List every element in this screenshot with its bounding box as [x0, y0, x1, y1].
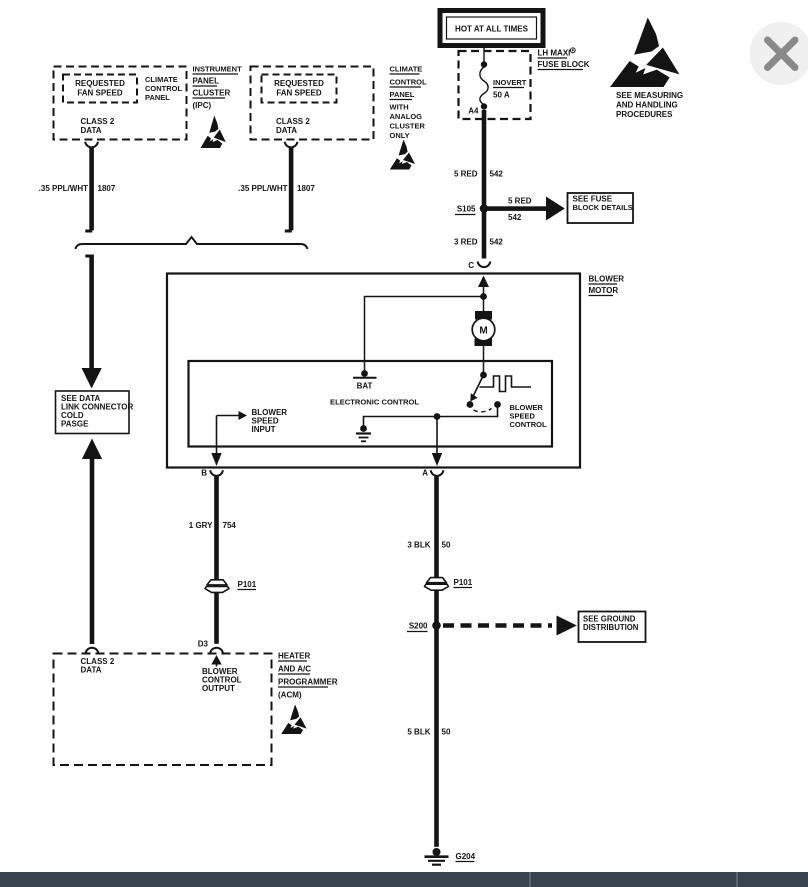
svg-text:542: 542: [490, 238, 504, 247]
svg-text:CONTROL: CONTROL: [510, 420, 547, 429]
svg-text:1 GRY: 1 GRY: [189, 521, 213, 530]
connector cup at U1 exit: [85, 142, 98, 148]
wire A exit: [436, 417, 438, 457]
switch blower speed control: [480, 372, 487, 379]
svg-text:5 RED: 5 RED: [454, 170, 478, 179]
svg-text:DATA: DATA: [276, 126, 297, 135]
connector cup at U2 exit: [285, 142, 298, 148]
svg-text:3 BLK: 3 BLK: [407, 541, 430, 550]
dashed box requested fan speed (U1): [63, 75, 137, 103]
svg-text:AND A/C: AND A/C: [278, 665, 311, 674]
svg-text:FUSE BLOCK: FUSE BLOCK: [538, 60, 590, 69]
svg-text:INOVERT: INOVERT: [493, 78, 527, 87]
wire motor to switch: [483, 346, 485, 373]
splice S200: [432, 621, 441, 630]
node junction A: [434, 413, 441, 420]
svg-text:CLUSTER: CLUSTER: [390, 122, 426, 131]
svg-text:DATA: DATA: [81, 666, 102, 675]
wire fuse to C: [482, 110, 487, 259]
splice S105: [480, 204, 489, 213]
ground (electronic control): [360, 425, 367, 432]
svg-text:FAN SPEED: FAN SPEED: [276, 89, 322, 98]
svg-text:ONLY: ONLY: [390, 131, 410, 140]
svg-text:D3: D3: [198, 640, 209, 649]
pin C connector cup: [478, 262, 491, 268]
svg-text:754: 754: [223, 521, 237, 530]
svg-text:CONTROL: CONTROL: [390, 78, 427, 87]
svg-text:CLIMATE: CLIMATE: [145, 75, 178, 84]
box SEE DATA LINK CONNECTOR: [56, 391, 130, 434]
svg-text:50: 50: [442, 541, 451, 550]
svg-text:BAT: BAT: [357, 382, 373, 391]
svg-text:OUTPUT: OUTPUT: [202, 684, 235, 693]
wire to BAT: [365, 297, 484, 372]
connector dome at ACM class2 entry: [86, 648, 99, 654]
svg-text:1807: 1807: [297, 184, 315, 193]
svg-text:.35 PPL/WHT: .35 PPL/WHT: [238, 184, 287, 193]
svg-text:LH MAXI: LH MAXI: [538, 49, 571, 58]
svg-text:AND HANDLING: AND HANDLING: [616, 101, 678, 110]
wire from U1 down: [89, 148, 94, 231]
svg-text:INSTRUMENT: INSTRUMENT: [193, 65, 243, 74]
connector P101 (B wire): [205, 580, 229, 593]
ESD warning triangle (analog cluster): [390, 140, 415, 170]
svg-text:CLUSTER: CLUSTER: [193, 89, 231, 98]
wire from U2 down: [289, 148, 294, 231]
svg-text:PANEL: PANEL: [193, 77, 220, 86]
svg-text:B: B: [201, 469, 207, 478]
svg-text:REQUESTED: REQUESTED: [274, 79, 324, 88]
svg-text:5 RED: 5 RED: [508, 197, 532, 206]
svg-text:DATA: DATA: [81, 126, 102, 135]
terminal BAT: [361, 370, 368, 377]
svg-text:542: 542: [508, 213, 522, 222]
svg-text:C: C: [468, 261, 474, 270]
motor M symbol: [475, 311, 492, 320]
svg-text:BLOWER: BLOWER: [589, 275, 625, 284]
svg-text:S200: S200: [409, 622, 428, 631]
dashed box U1 climate control panel (IPC): [54, 67, 187, 140]
svg-text:PANEL: PANEL: [145, 93, 170, 102]
box blower motor M1: [167, 274, 580, 468]
svg-text:5 BLK: 5 BLK: [407, 728, 430, 737]
bus brace (twisted pair merge): [76, 237, 308, 249]
connector dome at ACM blower control entry: [210, 648, 223, 654]
dashed wire to ground distribution: [443, 623, 552, 628]
svg-text:1807: 1807: [98, 184, 116, 193]
wire from HOT box into fuse: [483, 45, 485, 62]
svg-text:INPUT: INPUT: [252, 425, 276, 434]
svg-text:542: 542: [490, 170, 504, 179]
box SEE FUSE BLOCK DETAILS: [568, 193, 634, 223]
svg-text:HEATER: HEATER: [278, 652, 311, 661]
svg-text:ELECTRONIC CONTROL: ELECTRONIC CONTROL: [330, 398, 419, 407]
svg-text:M: M: [479, 326, 487, 337]
ground G204: [433, 848, 441, 856]
fuse INOVERT 50 A: [481, 61, 487, 67]
svg-text:DISTRIBUTION: DISTRIBUTION: [583, 623, 639, 632]
svg-text:MOTOR: MOTOR: [589, 286, 619, 295]
PWM waveform: [480, 376, 532, 392]
box HOT AT ALL TIMES: [440, 11, 543, 46]
svg-text:PASGE: PASGE: [61, 420, 89, 429]
svg-text:50 A: 50 A: [493, 91, 510, 100]
close button: [750, 22, 808, 85]
svg-text:A: A: [422, 469, 428, 478]
svg-text:CLASS 2: CLASS 2: [81, 117, 115, 126]
svg-text:G204: G204: [456, 852, 476, 861]
node junction to BAT: [480, 293, 487, 300]
arrow blower control output: [211, 655, 221, 665]
svg-text:CLIMATE: CLIMATE: [390, 65, 423, 74]
svg-text:BLOCK DETAILS: BLOCK DETAILS: [573, 203, 633, 212]
svg-text:ANALOG: ANALOG: [390, 112, 423, 121]
ESD warning triangle (ACM): [281, 705, 306, 734]
wire S105 to fuse block details arrow: [484, 206, 546, 211]
svg-text:(IPC): (IPC): [193, 101, 212, 110]
svg-text:REQUESTED: REQUESTED: [75, 79, 125, 88]
dashed box ACM heater and a/c programmer: [54, 654, 272, 766]
wire switch to ground bus: [364, 405, 498, 427]
wire from DLC note down to ACM: [82, 439, 102, 460]
box electronic control: [189, 361, 553, 447]
svg-text:A4: A4: [468, 107, 479, 116]
wire A to ground: [434, 476, 439, 847]
svg-text:PANEL: PANEL: [390, 90, 415, 99]
connector P101 (A wire): [425, 578, 449, 591]
ESD warning triangle (IPC): [201, 116, 226, 148]
svg-text:WITH: WITH: [390, 103, 409, 112]
dashed box requested fan speed (U2): [262, 75, 337, 103]
svg-text:(ACM): (ACM): [278, 691, 302, 700]
wire B to ACM: [214, 476, 219, 644]
wire bus down to DLC note: [85, 255, 92, 258]
bottom toolbar: [0, 872, 808, 887]
box SEE GROUND DISTRIBUTION: [579, 612, 646, 643]
ESD warning triangle (measuring/handling): [610, 18, 679, 88]
svg-text:SEE MEASURING: SEE MEASURING: [616, 91, 683, 100]
dashed box LH maxi fuse block: [459, 51, 531, 119]
svg-text:.35 PPL/WHT: .35 PPL/WHT: [39, 184, 88, 193]
svg-text:CLASS 2: CLASS 2: [276, 117, 310, 126]
svg-text:S105: S105: [457, 205, 476, 214]
svg-text:FAN SPEED: FAN SPEED: [77, 89, 123, 98]
dashed box U2 climate control panel (analog): [251, 67, 374, 140]
svg-text:HOT AT ALL TIMES: HOT AT ALL TIMES: [455, 25, 529, 34]
svg-text:PROCEDURES: PROCEDURES: [616, 110, 673, 119]
svg-text:P101: P101: [238, 580, 257, 589]
svg-text:CONTROL: CONTROL: [145, 84, 182, 93]
svg-text:P101: P101: [454, 578, 473, 587]
svg-text:50: 50: [442, 728, 451, 737]
svg-text:3 RED: 3 RED: [454, 238, 478, 247]
svg-text:PROGRAMMER: PROGRAMMER: [278, 678, 338, 687]
wire blower speed input (B): [217, 415, 240, 417]
wire C into motor: [478, 276, 489, 288]
